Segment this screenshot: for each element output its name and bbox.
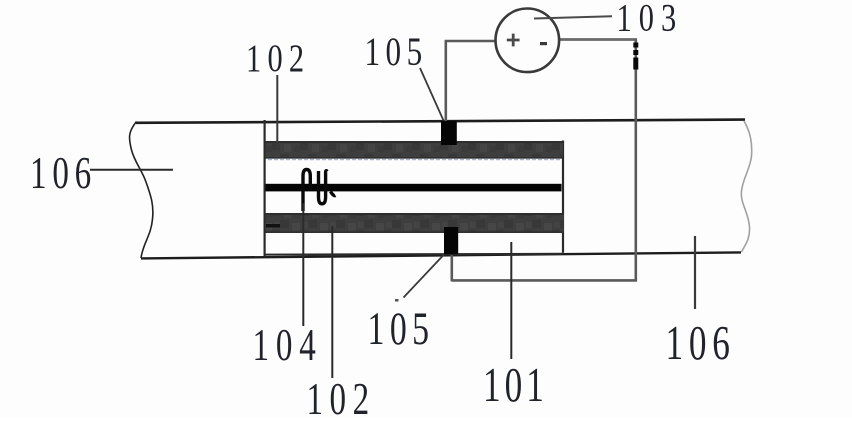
svg-text:106: 106 (666, 317, 736, 371)
sensing film 104 central black line (266, 184, 562, 192)
leader line for top 102 (276, 75, 278, 148)
contact 105 top black stub (441, 121, 457, 145)
defect squiggle 104 (303, 170, 336, 212)
layer 106 bottom boundary line (141, 252, 741, 258)
leader line for 101 (510, 242, 512, 359)
svg-text:104: 104 (253, 319, 323, 371)
substrate 101 right edge (562, 141, 564, 253)
leader line for left 106 (90, 169, 173, 171)
leader line for bottom 102 (331, 226, 333, 378)
leader line for 103 (534, 16, 612, 18)
wire left vertical from source (444, 41, 447, 121)
electrode layer 102 bottom bar (266, 213, 565, 233)
left break line of layer 106 (130, 122, 153, 259)
svg-text:103: 103 (617, 0, 684, 39)
contact 105 bottom black stub (444, 227, 458, 254)
wire bottom horizontal (452, 279, 637, 282)
label 104 (253, 319, 323, 371)
plus terminal (507, 34, 520, 47)
substrate 101 bottom edge (265, 253, 563, 256)
label 101 (483, 359, 548, 413)
label 102 bottom (307, 373, 376, 423)
label 105 top (365, 29, 428, 74)
minus terminal (540, 42, 547, 45)
svg-text:102: 102 (307, 373, 376, 418)
leader line for top 105 (420, 68, 444, 121)
right break line of layer 106 (741, 121, 751, 252)
label 103 (617, 0, 684, 39)
electrode layer 102 top bar (266, 141, 564, 159)
label 106 right (666, 317, 736, 371)
label 105 bottom (368, 303, 435, 355)
layer 106 top boundary line (136, 120, 745, 123)
voltage source U 103 circle (496, 9, 560, 73)
black dashed segment on right wire (633, 43, 638, 70)
svg-text:105: 105 (368, 303, 435, 355)
leader line for bottom 105 (404, 255, 445, 298)
label 106 left (30, 147, 97, 199)
dark dash inside bottom bar (266, 224, 280, 228)
dot near bottom 105 leader (395, 299, 399, 302)
blue scan tint under top bar (268, 159, 560, 161)
svg-text:105: 105 (365, 29, 428, 74)
substrate 101 left edge (264, 120, 266, 257)
leader line for 104 (302, 203, 304, 326)
wire right horizontal from source (559, 38, 637, 41)
wire left horizontal to source (445, 40, 495, 43)
leader line for right 106 (694, 236, 696, 309)
wire right vertical (634, 40, 637, 282)
svg-text:102: 102 (246, 36, 310, 79)
svg-text:101: 101 (483, 359, 548, 413)
svg-text:106: 106 (30, 147, 97, 199)
label 102 top (246, 36, 310, 79)
wire bottom-left vertical to contact (450, 255, 453, 281)
